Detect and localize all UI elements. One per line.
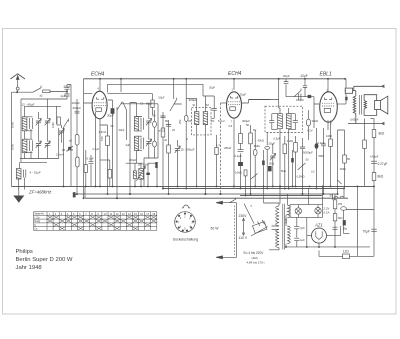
svg-text:a+12: a+12 [159, 129, 166, 133]
svg-text:25k: 25k [178, 119, 182, 124]
svg-text:50: 50 [246, 123, 250, 127]
svg-text:10 - 60µF: 10 - 60µF [138, 163, 150, 167]
svg-text:150µF: 150µF [296, 98, 304, 102]
svg-text:1MΩ: 1MΩ [254, 144, 261, 148]
svg-text:5+4,2: 5+4,2 [218, 119, 225, 123]
svg-text:4µF: 4µF [126, 143, 131, 147]
svg-text:ECH4: ECH4 [228, 71, 242, 77]
svg-text:515: 515 [100, 136, 104, 141]
svg-text:70µF: 70µF [363, 230, 370, 234]
svg-text:25µ: 25µ [343, 227, 348, 231]
svg-text:4,2V: 4,2V [307, 129, 313, 133]
svg-text:100µF: 100µF [72, 101, 80, 105]
svg-text:6V: 6V [253, 128, 256, 132]
svg-text:40µF: 40µF [119, 128, 125, 132]
svg-text:1000: 1000 [11, 143, 15, 150]
svg-text:7µF: 7µF [300, 226, 305, 230]
svg-text:4,84 bis 170 t: 4,84 bis 170 t [247, 261, 265, 265]
svg-text:Berlin Super D 200 W: Berlin Super D 200 W [16, 257, 73, 263]
svg-text:300µF: 300µF [129, 158, 137, 162]
svg-text:5kΩ: 5kΩ [281, 169, 286, 173]
svg-text:5000µF: 5000µF [303, 151, 313, 155]
svg-text:0.1µF: 0.1µF [87, 157, 94, 161]
svg-text:20µF: 20µF [283, 74, 290, 78]
svg-text:MΩ: MΩ [338, 216, 342, 220]
svg-text:4 - 10µF: 4 - 10µF [30, 171, 41, 175]
svg-text:0.1A: 0.1A [324, 211, 330, 215]
svg-text:4,8mA: 4,8mA [99, 130, 107, 134]
svg-text:AZ1: AZ1 [314, 223, 323, 228]
svg-text:42: 42 [164, 138, 167, 142]
svg-text:0,5MΩ: 0,5MΩ [297, 175, 305, 179]
svg-text:Eu 4 bis 220V: Eu 4 bis 220V [244, 251, 265, 255]
svg-text:12 - 68µF: 12 - 68µF [22, 103, 35, 107]
svg-text:5MΩ: 5MΩ [319, 154, 325, 158]
svg-text:a2: a2 [69, 139, 72, 143]
svg-text:ECH4: ECH4 [91, 72, 105, 78]
svg-text:EBL1: EBL1 [320, 72, 332, 78]
svg-text:2x350V: 2x350V [284, 214, 288, 223]
svg-text:0,2: 0,2 [311, 170, 315, 174]
svg-text:(4M): (4M) [252, 256, 258, 260]
svg-text:25µF: 25µF [269, 142, 276, 146]
svg-text:1MΩ: 1MΩ [287, 139, 294, 143]
svg-text:300µF: 300µF [189, 98, 198, 102]
svg-text:0.1µF: 0.1µF [235, 154, 243, 158]
svg-text:10kΩ: 10kΩ [235, 171, 243, 175]
svg-text:8kΩ: 8kΩ [379, 132, 385, 136]
svg-text:50µF: 50µF [159, 96, 165, 100]
svg-text:50 W: 50 W [211, 227, 220, 231]
svg-text:.10µF: .10µF [300, 74, 308, 78]
svg-text:290µF: 290µF [73, 106, 82, 110]
svg-text:1MΩ: 1MΩ [326, 134, 333, 138]
svg-text:0,5µF: 0,5µF [274, 137, 281, 141]
svg-text:W3: W3 [338, 202, 343, 206]
svg-text:0.27µF: 0.27µF [378, 162, 388, 166]
svg-text:30µF: 30µF [107, 114, 114, 118]
svg-text:12Ω: 12Ω [343, 250, 350, 254]
svg-text:110 V: 110 V [239, 236, 248, 240]
svg-text:2µF: 2µF [61, 94, 66, 98]
svg-text:Skala-Nr.: Skala-Nr. [34, 213, 45, 216]
svg-text:a2: a2 [40, 94, 44, 98]
svg-text:230V: 230V [239, 214, 248, 218]
svg-text:4,65µF: 4,65µF [370, 155, 379, 159]
svg-text:10kΩ: 10kΩ [312, 119, 319, 123]
svg-text:20µF: 20µF [209, 85, 216, 89]
svg-text:1µF: 1µF [300, 238, 305, 242]
svg-text:2,5mA: 2,5mA [56, 153, 64, 157]
svg-text:1,4: 1,4 [216, 143, 220, 147]
svg-text:0,1µF: 0,1µF [93, 147, 100, 151]
svg-text:8kΩ: 8kΩ [378, 175, 384, 179]
svg-text:50: 50 [330, 194, 334, 198]
svg-text:Philips: Philips [16, 249, 33, 255]
svg-text:6,8: 6,8 [229, 124, 233, 128]
svg-text:43kΩ: 43kΩ [258, 139, 264, 143]
svg-text:M-Zg: M-Zg [34, 220, 40, 223]
svg-text:L-Zg: L-Zg [34, 216, 40, 219]
svg-text:25 - 0.16: 25 - 0.16 [62, 148, 73, 152]
svg-text:25kΩ: 25kΩ [224, 146, 232, 150]
svg-text:Jahr 1948: Jahr 1948 [16, 265, 43, 271]
svg-text:1000: 1000 [11, 121, 15, 128]
svg-text:0,65µF: 0,65µF [350, 118, 359, 122]
svg-text:ZF=468kHz: ZF=468kHz [28, 190, 52, 195]
svg-text:20µF: 20µF [64, 85, 71, 89]
svg-text:15 - 530µF: 15 - 530µF [181, 148, 195, 152]
svg-text:1MΩ: 1MΩ [340, 167, 347, 171]
svg-text:1MΩ: 1MΩ [51, 122, 55, 128]
svg-text:Sockelschaltung: Sockelschaltung [173, 238, 199, 242]
svg-text:13 - 60µF: 13 - 60µF [140, 102, 153, 106]
svg-text:0.1µF: 0.1µF [318, 141, 326, 145]
svg-text:50: 50 [347, 157, 351, 161]
svg-text:50Ω: 50Ω [269, 162, 274, 166]
svg-text:50: 50 [165, 119, 169, 123]
